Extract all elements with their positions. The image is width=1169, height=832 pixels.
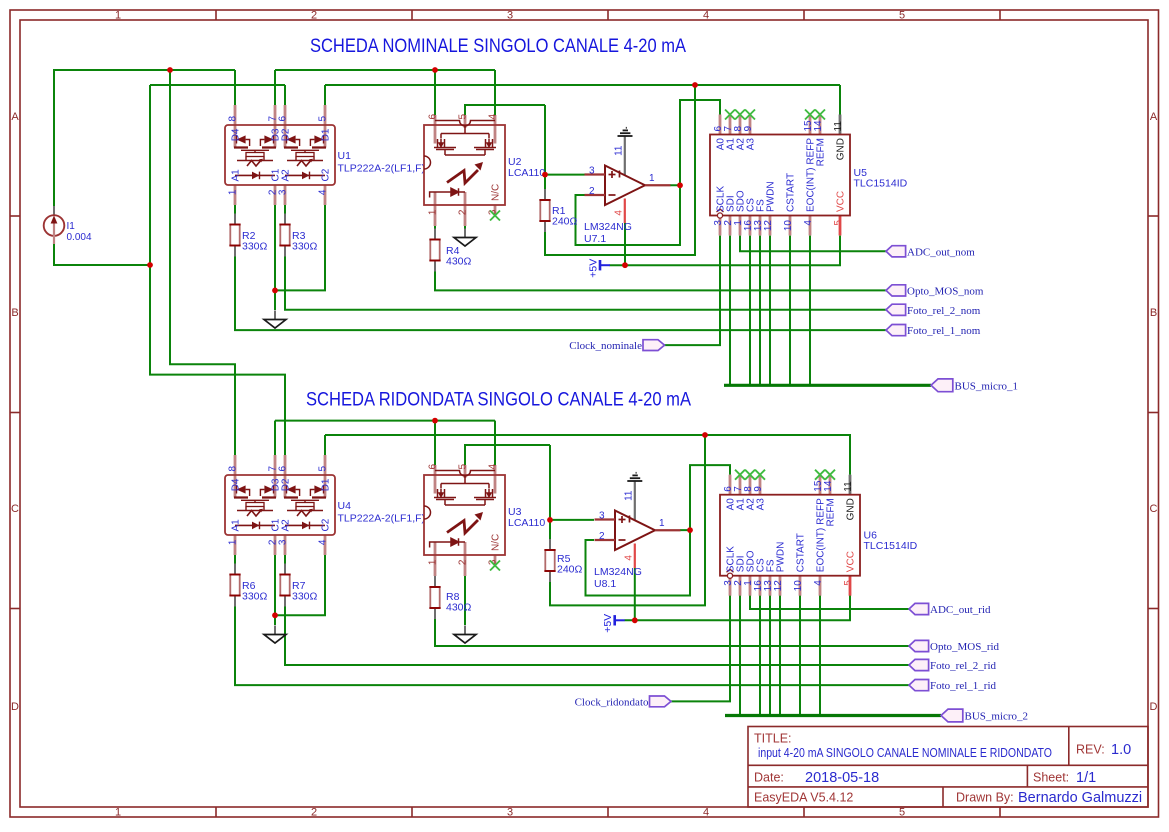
svg-text:Opto_MOS_nom: Opto_MOS_nom [907,285,984,297]
svg-text:240Ω: 240Ω [557,564,583,576]
svg-text:B: B [1150,307,1157,319]
earth ground op-amp U7 pin11 [618,128,633,136]
wire CSTART to bus [789,236,791,386]
net flag Clock_ridondato [650,696,672,707]
svg-text:4: 4 [703,10,709,22]
op-amp U7.1 LM324NG [585,136,671,223]
junction +5V / op-amp pin4 [622,262,628,268]
net flag Foto_rel_1_nom [886,325,906,336]
ADC U5 TLC1514ID [710,110,850,236]
svg-text:1/1: 1/1 [1076,770,1096,786]
wire +5V rail [610,236,841,266]
svg-text:D: D [1150,701,1158,713]
svg-text:2018-05-18: 2018-05-18 [805,770,879,786]
optocoupler U1 TLP222A-2 [225,105,335,205]
svg-text:SCHEDA RIDONDATA SINGOLO CANAL: SCHEDA RIDONDATA SINGOLO CANALE 4-20 mA [306,389,691,411]
junction GND rail / loop rail [692,82,698,88]
net flag Foto_rel_2_rid [909,659,929,670]
current source I1 [44,206,92,244]
ground U4 [264,626,286,644]
wire U4 pin3 to R7 [284,555,286,564]
wire PWDN to bus [769,236,771,386]
wire Clock_ridondato to SCLK [671,595,730,701]
wire U1 pin3 to R3 [284,205,286,214]
svg-text:LCA110: LCA110 [508,517,545,529]
svg-text:input 4-20 mA SINGOLO CANALE N: input 4-20 mA SINGOLO CANALE NOMINALE E … [758,745,1052,760]
svg-text:TLC1514ID: TLC1514ID [854,178,908,190]
svg-text:Foto_rel_2_rid: Foto_rel_2_rid [930,660,996,672]
wire R8 to Opto_MOS_rid [435,619,909,646]
svg-text:330Ω: 330Ω [292,591,318,603]
power flag +5V nominale [588,259,611,278]
no-connect X U2 pin3 [490,211,500,221]
ADC U6 TLC1514ID [720,470,860,596]
svg-text:Opto_MOS_rid: Opto_MOS_rid [930,641,1000,653]
net rail x150 to U4 pin6 [150,85,285,455]
resistor R4 [429,229,440,272]
wire CSTART to bus2 [799,595,801,715]
resistor R6 [229,564,240,607]
wire U1 pin2 to gnd junction [274,205,276,290]
svg-text:TITLE:: TITLE: [754,732,792,746]
wire R5 rail lower loop [550,435,705,605]
net flag Foto_rel_1_rid [909,680,929,691]
svg-text:1.0: 1.0 [1111,742,1131,758]
svg-text:430Ω: 430Ω [446,256,472,268]
wire op-amp output [670,100,720,185]
svg-text:Foto_rel_1_nom: Foto_rel_1_nom [907,325,981,337]
wire ADC GND pin drop [839,85,841,115]
wire U4 pin5 drop [324,435,326,455]
svg-text:Foto_rel_2_nom: Foto_rel_2_nom [907,305,981,317]
wire U1 gnd stem [274,290,276,310]
ground U2 [454,229,476,247]
svg-text:BUS_micro_2: BUS_micro_2 [965,711,1029,723]
resistor R2 [229,214,240,257]
svg-text:LCA110: LCA110 [508,167,545,179]
wire R4 to Opto_MOS_nom [435,272,886,291]
wire U1 pin6 drop [284,85,286,105]
wire U1 pin1 to R2 [234,205,236,214]
svg-text:I1: I1 [67,221,76,232]
svg-text:B: B [11,307,18,319]
wire R5 rail upper [549,445,551,539]
wire Clock_nominale to SCLK [665,236,721,346]
junction R1 / op-amp pin3 [542,172,548,178]
junction op-amp U8 output [687,527,693,533]
wire U4 pin2 to gnd junction [274,555,276,615]
svg-text:330Ω: 330Ω [292,241,318,253]
svg-text:5: 5 [899,10,905,22]
junction +5V rid / op-amp pin4 [632,617,638,623]
bus BUS_micro_1 [724,384,931,387]
svg-text:1: 1 [115,10,121,22]
svg-text:TLC1514ID: TLC1514ID [864,540,918,552]
svg-text:U4: U4 [338,500,352,512]
wire R1 rail lower loop [545,85,695,255]
net flag ADC_out_rid [909,603,929,614]
svg-text:Sheet:: Sheet: [1033,771,1069,785]
wire FS to bus2 [769,595,771,715]
wire U2 pin6 drop [434,70,436,115]
svg-text:REV:: REV: [1076,743,1105,757]
svg-text:C: C [11,503,19,515]
wire U2 pin2 to gnd [464,226,466,231]
net rail x170 to U4 pin8 [170,70,235,455]
svg-text:3: 3 [507,807,513,819]
svg-text:Clock_nominale: Clock_nominale [569,340,642,352]
wire R1 rail upper [544,105,546,189]
wire EOC to bus [809,236,811,386]
svg-text:A: A [1150,111,1158,123]
wire top rail right segment [275,69,495,71]
svg-text:3: 3 [507,10,513,22]
resistor R8 [429,576,440,619]
svg-text:BUS_micro_1: BUS_micro_1 [955,380,1019,392]
svg-text:430Ω: 430Ω [446,602,472,614]
wire U4 pin1 to R6 [234,555,236,564]
junction U1 pin2/pin4/gnd [272,288,278,294]
wire CS to bus [749,236,751,386]
wire U1 pin7 drop [274,70,276,105]
junction R5 / op-amp pin3 [547,517,553,523]
wire R1 to op-amp pin3 [545,174,585,176]
earth ground op-amp U8 pin11 [627,473,642,481]
wire R3 to Foto_rel_2_nom [285,257,886,310]
svg-text:TLP222A-2(LF1,F): TLP222A-2(LF1,F) [338,513,426,525]
wire SDO to ADC_out_rid [750,595,909,609]
wire SDI to bus [729,236,731,386]
wire U4 pin7 drop [274,421,276,455]
wire top rail ridondata [275,420,495,422]
svg-text:Drawn By:: Drawn By: [956,791,1014,805]
svg-text:D: D [11,701,19,713]
wire PWDN to bus2 [779,595,781,715]
junction U4 pin2/pin4/gnd [272,612,278,618]
svg-text:Date:: Date: [754,771,784,785]
svg-text:U7.1: U7.1 [584,233,606,245]
svg-text:4: 4 [703,807,709,819]
svg-text:LM324NG: LM324NG [584,221,632,233]
svg-text:LM324NG: LM324NG [594,566,642,578]
svg-text:5: 5 [899,807,905,819]
bus BUS_micro_2 [725,714,941,717]
junction I1 loop / x150 rail [147,262,153,268]
wire +5V rail ridondata [625,595,851,620]
svg-text:U8.1: U8.1 [594,578,616,590]
wire U4 junction to pin4 [275,555,325,615]
junction top rail / U2 pin6 [432,67,438,73]
wire U2 pin1 to R4 [434,226,436,229]
photo-MOS relay U3 LCA110 [424,464,505,577]
junction top rail / x170 rail [167,67,173,73]
wire op-amp U8 output [680,465,730,530]
optocoupler U4 TLP222A-2 [225,455,335,555]
wire R7 to Foto_rel_2_rid [285,607,909,666]
net flag Opto_MOS_rid [909,640,929,651]
ground U3 [454,626,476,644]
power flag +5V ridondata [602,614,625,633]
photo-MOS relay U2 LCA110 [424,114,505,227]
svg-text:1: 1 [115,807,121,819]
wire U1 pin5 drop [324,85,326,105]
svg-text:SCHEDA NOMINALE SINGOLO CANALE: SCHEDA NOMINALE SINGOLO CANALE 4-20 mA [310,35,686,57]
net flag Clock_nominale [643,340,665,351]
svg-text:A: A [11,111,19,123]
wire op-amp U8 feedback loop [586,530,691,595]
resistor R3 [279,214,290,257]
junction top rail rid / U3 pin6 [432,418,438,424]
svg-text:Foto_rel_1_rid: Foto_rel_1_rid [930,680,996,692]
net flag BUS_micro_2 [941,709,963,722]
wire op-amp feedback loop [576,185,681,245]
wire U2 pin4 drop [494,70,496,115]
wire I1 to top rail [54,70,235,206]
svg-text:2: 2 [311,807,317,819]
svg-text:C: C [1150,503,1158,515]
no-connect X U3 pin3 [490,561,500,571]
svg-text:EasyEDA V5.4.12: EasyEDA V5.4.12 [754,791,853,805]
wire op-amp pin4 to +5V [624,223,626,265]
wire U3 pin2 to gnd [464,576,466,625]
wire U4 gnd stem [274,615,276,625]
svg-text:330Ω: 330Ω [242,241,268,253]
wire U3 pin5 to R5 rail [465,445,550,465]
wire U3 pin6 drop [434,421,436,465]
svg-text:TLP222A-2(LF1,F): TLP222A-2(LF1,F) [338,163,426,175]
junction GND rail rid / loop rail [702,432,708,438]
wire GND rail right segment [325,84,840,86]
svg-text:2: 2 [311,10,317,22]
wire U3 pin4 drop [494,421,496,465]
wire SDO to ADC_out_nom [740,236,886,252]
wire CS to bus2 [759,595,761,715]
wire R5 to op-amp pin3 [550,519,594,521]
ground U1 [264,311,286,329]
wire GND rail ridondata [325,435,850,475]
svg-text:U1: U1 [338,150,352,162]
net flag ADC_out_nom [886,246,906,257]
wire GND rail left segment [150,84,285,86]
wire R6 to Foto_rel_1_rid [235,607,909,686]
svg-text:240Ω: 240Ω [552,216,578,228]
svg-text:ADC_out_nom: ADC_out_nom [907,246,975,258]
resistor R1 [539,189,550,232]
wire R2 to Foto_rel_1_nom [235,257,886,331]
junction op-amp U7 output [677,182,683,188]
svg-text:Clock_ridondato: Clock_ridondato [575,696,649,708]
title block [748,727,1148,808]
wire U1 pin8 drop [234,70,236,105]
resistor R5 [544,539,555,582]
svg-text:ADC_out_rid: ADC_out_rid [930,604,991,616]
svg-text:330Ω: 330Ω [242,591,268,603]
net flag Foto_rel_2_nom [886,304,906,315]
resistor R7 [279,564,290,607]
wire U1 junction to pin4 [275,205,325,290]
wire FS to bus [759,236,761,386]
wire EOC to bus2 [819,595,821,715]
wire SDI to bus2 [739,595,741,715]
wire I1 loop top [54,244,150,265]
net flag BUS_micro_1 [931,379,953,392]
net flag Opto_MOS_nom [886,285,906,296]
svg-text:Bernardo Galmuzzi: Bernardo Galmuzzi [1018,790,1142,806]
wire U8 pin4 to +5V [634,568,636,620]
svg-text:0.004: 0.004 [67,232,92,243]
op-amp U8.1 LM324NG [595,481,681,568]
wire U2 pin5 to R1 rail [465,105,545,115]
